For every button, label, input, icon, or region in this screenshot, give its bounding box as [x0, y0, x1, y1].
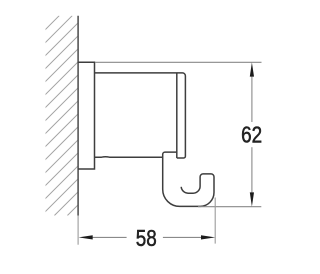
extension line bottom (for 62)	[198, 206, 261, 208]
extension line top (for 62)	[95, 61, 262, 63]
mounting plate	[78, 62, 94, 169]
svg-text:62: 62	[241, 122, 262, 148]
wall hatching	[0, 16, 267, 216]
hook body bottom line	[95, 156, 163, 158]
dimension line 62 (vertical)	[251, 76, 253, 122]
arrow right (58)	[201, 235, 215, 239]
J-hook	[163, 152, 214, 206]
svg-text:58: 58	[136, 225, 157, 251]
arrow down (62 bottom)	[250, 192, 254, 206]
hook body top bar and right arm	[95, 73, 186, 158]
arrow up (62 top)	[250, 62, 254, 76]
wall face line	[77, 16, 79, 216]
arrow left (58)	[79, 235, 93, 239]
arm left edge	[176, 73, 178, 158]
extension line (wall, left of 58 dim)	[77, 216, 79, 245]
dimension line 58 (horizontal)	[92, 236, 127, 238]
extension line right (for 58)	[214, 198, 216, 244]
